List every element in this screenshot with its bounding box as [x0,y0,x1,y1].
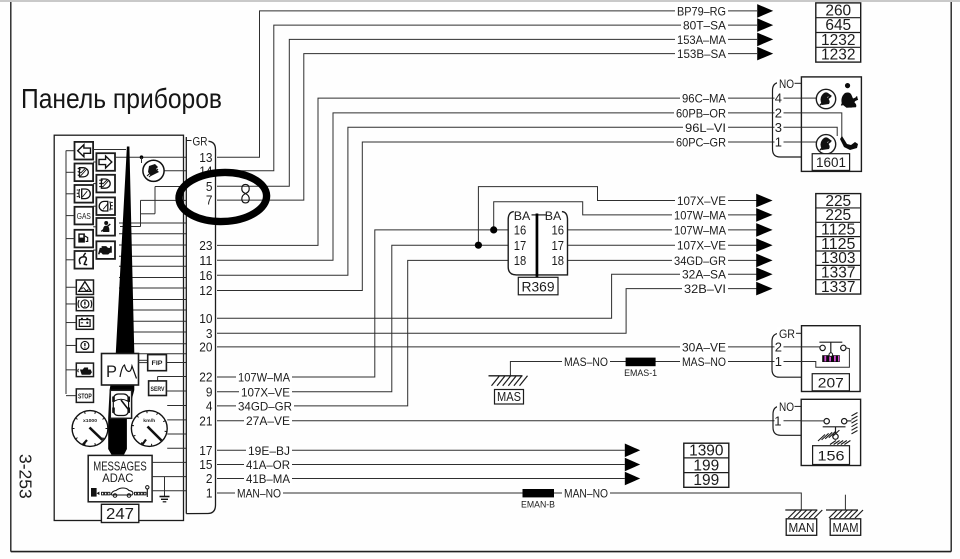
svg-text:NO: NO [779,79,794,91]
junction on R369 pin16 wire [490,226,497,233]
svg-text:4: 4 [206,399,213,414]
component R369 [508,209,567,295]
207 internal switch icon [802,342,850,367]
connector box 225/225/1125/1125/1303/1337/1337 [816,193,861,296]
tachometer gauge x1000 [72,411,108,447]
annotation ellipse (highlight around pins 5/7) [178,171,267,223]
156 reference label [813,446,850,465]
component 207 [802,326,861,392]
svg-text:MAS–NO: MAS–NO [682,355,726,369]
indicator STOP [66,389,94,403]
svg-text:30A–VE: 30A–VE [682,340,726,354]
pin 20 of connector GR [199,340,215,355]
svg-text:1: 1 [775,354,782,369]
svg-text:EMAS-1: EMAS-1 [624,368,657,379]
svg-text:MAN: MAN [789,520,815,535]
pin 21 of connector GR [199,413,215,428]
svg-text:18: 18 [552,254,565,268]
ground MAM [826,495,863,536]
svg-text:153A–MA: 153A–MA [677,33,726,47]
wire 30A-VE : pin20 to 207 pin2 [217,340,802,354]
svg-text:156: 156 [818,448,845,464]
indicator engine [93,241,115,259]
splice EMAN-B [521,489,555,511]
wire 60PB-OR : pin11 to 1601 pin2 [217,106,801,260]
speedometer needle (black pointer) [108,147,134,455]
svg-text:22: 22 [199,370,212,385]
pin 4 of connector GR [206,399,215,414]
svg-text:x1000: x1000 [83,418,97,424]
pin 1 of connector GR [206,486,215,501]
1601 pin 1 [775,135,784,150]
svg-text:41B–MA: 41B–MA [246,472,290,486]
svg-text:MAS: MAS [497,390,521,404]
svg-text:5: 5 [206,179,213,194]
svg-text:107X–VE: 107X–VE [677,194,726,208]
cluster internal wire bus (left ladder) [65,151,67,395]
speedometer gauge km/h [131,411,167,447]
svg-text:P: P [106,363,117,381]
svg-text:107W–MA: 107W–MA [238,371,290,385]
svg-text:32B–VI: 32B–VI [684,282,726,296]
svg-text:15: 15 [199,457,212,472]
svg-text:MAN–NO: MAN–NO [237,487,281,501]
connector box 260/645/1232/1232 [816,2,861,63]
svg-text:1: 1 [774,413,781,428]
wire 107X-VE : R369 pin17 branch to connector 225 [478,187,757,246]
wire 41A-OR : pin15 to connector 199 [217,458,625,472]
wire 19E-BJ : pin17 to connector 1390 [217,444,625,458]
svg-text:1337: 1337 [821,279,855,296]
svg-text:Панель приборов: Панель приборов [21,83,222,114]
svg-text:4: 4 [775,91,782,106]
svg-text:R369: R369 [522,279,555,294]
wire MAN-NO : pin1 to ground MAN [217,487,801,511]
svg-text:10: 10 [199,311,212,326]
indicator brake [66,297,94,311]
svg-text:km/h: km/h [143,418,155,424]
svg-text:1: 1 [206,486,213,501]
svg-text:60PC–GR: 60PC–GR [676,136,726,150]
door-ajar car (top view) box [110,390,131,418]
svg-text:12: 12 [199,283,212,298]
wire 153A-MA : pin5 to connector 1232 [217,33,757,186]
wire 107X-VE : pin9 to R369 pin17 (left) [217,245,508,399]
indicator oil [66,363,94,377]
wire BP79-RG : pin13 to connector 260 [217,4,757,157]
wire 32B-VI : pin3 to connector 1337 [217,282,757,333]
svg-text:107X–VE: 107X–VE [677,239,726,253]
svg-text:FIP: FIP [152,360,164,367]
MESSAGES ADAC display box [88,455,152,501]
207 pin 1 [775,354,784,369]
pin 3 of connector GR [206,326,215,341]
indicator left turn [66,142,93,160]
svg-text:18: 18 [514,254,527,268]
cluster reference label 247 [101,504,138,523]
svg-text:SERV: SERV [151,386,166,393]
svg-text:96C–MA: 96C–MA [682,92,726,106]
cluster wiring to connector (lower rows) [152,363,186,491]
R369 reference label [518,277,558,295]
title: Панель приборов [21,83,222,114]
cluster internal ground [160,477,170,502]
1601 seat belt indicator icon (bottom) [816,135,835,154]
svg-text:2: 2 [775,105,782,120]
svg-text:16: 16 [199,268,212,283]
indicator front fog [66,185,93,203]
pin 17 of connector GR [199,443,215,458]
pin 13 of connector GR [199,150,215,165]
wire 32A-SA : pin10 to connector 1337 [217,268,757,319]
arrows to 1390/199/199 [625,444,640,486]
svg-text:GR: GR [193,135,208,149]
ground MAN [785,510,822,535]
wire 107W-MA : R369 pin16 branch to connector 225 [494,202,757,230]
indicator high beam [93,175,115,193]
wire 27A-VE : pin21 to 156 pin1 [217,414,801,428]
svg-text:34GD–GR: 34GD–GR [674,254,726,268]
svg-text:20: 20 [199,340,212,355]
svg-text:32A–SA: 32A–SA [682,268,726,282]
wire MAS-NO : ground MAS to 207 pin1 [510,355,801,376]
wire 34GD-GR : pin4 to R369 pin18 (left) [217,260,508,413]
1601 internal wiring [801,98,841,142]
wire 80T-SA : pin14 to connector 645 [217,19,757,171]
indicator fuel [66,230,93,248]
sheet number 3-253 [16,454,36,499]
svg-text:BA: BA [545,209,562,223]
connector box 1390/199/199 [684,443,729,489]
pin 5 of connector GR [206,179,215,194]
junction on R369 pin17 wire [475,242,482,249]
1601 child seat pictogram [841,83,858,108]
arrows to 225/225/1125/1125/1303/1337/1337 [756,194,772,296]
wire 60PC-GR : pin12 to 1601 pin1 [217,136,801,291]
indicator battery [66,316,94,330]
indicator rear fog [93,197,115,215]
svg-text:MAM: MAM [833,520,859,535]
component 156 [801,399,860,465]
FIP box [139,355,167,371]
ground MAS [489,376,528,404]
svg-text:BP79–RG: BP79–RG [677,4,726,18]
1601 pin 3 [775,120,784,135]
pin 2 of connector GR [206,471,215,486]
svg-text:21: 21 [199,413,212,428]
svg-text:96L–VI: 96L–VI [685,121,726,135]
svg-text:17: 17 [514,239,527,253]
svg-text:17: 17 [199,443,212,458]
pin 11 of connector GR [199,253,215,268]
svg-text:3-253: 3-253 [16,454,36,499]
svg-text:BA: BA [514,209,531,223]
indicator seatbelt [93,218,115,236]
svg-text:107W–MA: 107W–MA [674,223,726,237]
svg-text:41A–OR: 41A–OR [246,458,290,472]
wire 153B-SA : pin7 to connector 1232 [217,47,757,200]
splice EMAS-1 [624,358,657,379]
svg-text:EMAN-B: EMAN-B [521,500,555,511]
pin 22 of connector GR [199,370,215,385]
207 pin 2 [775,339,784,354]
svg-text:247: 247 [106,506,134,523]
arrows to 260/645/1232/1232 [757,4,773,60]
svg-text:STOP: STOP [78,393,92,400]
1601 buckle pictogram [840,136,858,150]
wire 107W-MA : pin22 to R369 pin16 (left) [217,230,508,385]
1601 seat belt indicator icon (top) [816,89,835,108]
1601 bracket and label NO [773,77,802,157]
connector GR of cluster 247 [186,135,215,514]
svg-text:MAN–NO: MAN–NO [564,487,608,501]
cluster wiring to connector (middle rows) [119,223,186,354]
207 bracket and label GR [772,327,802,378]
svg-text:1601: 1601 [816,155,846,170]
svg-text:17: 17 [552,239,565,253]
svg-text:2: 2 [206,471,213,486]
indicator low beam [66,164,93,182]
SERV box [149,377,167,396]
svg-text:199: 199 [693,472,719,489]
svg-text:1232: 1232 [821,47,855,64]
svg-text:3: 3 [775,120,782,135]
wire 96L-VI : pin16 to 1601 pin3 [217,121,801,275]
pin 12 of connector GR [199,283,215,298]
svg-text:2: 2 [775,339,782,354]
indicator esp triangle [66,280,94,295]
twisted-pair symbol on pins 5/7 wires [242,184,249,203]
svg-text:MAS–NO: MAS–NO [564,355,608,369]
svg-text:27A–VE: 27A–VE [246,414,290,428]
pin 10 of connector GR [199,311,215,326]
svg-text:1: 1 [775,135,782,150]
svg-text:ADAC: ADAC [102,471,133,485]
wire 41B-MA : pin2 to connector 199 [217,472,625,486]
pin 14 of connector GR [199,163,215,178]
svg-text:34GD–GR: 34GD–GR [238,399,292,413]
svg-text:80T–SA: 80T–SA [683,19,726,33]
svg-text:11: 11 [199,253,212,268]
pin 9 of connector GR [206,384,215,399]
svg-text:107X–VE: 107X–VE [241,385,290,399]
wire 96C-MA : pin23 to 1601 pin4 [217,92,801,246]
indicator right turn [93,153,115,171]
156 pin 1 [774,413,783,428]
indicator handbrake [66,339,94,353]
pin 23 of connector GR [199,238,215,253]
svg-text:60PB–OR: 60PB–OR [676,106,726,120]
207 illumination element (magenta) [822,355,840,362]
156 bracket and label NO [773,400,801,436]
svg-text:107W–MA: 107W–MA [674,208,726,222]
component 1601 [801,77,861,171]
svg-text:GAS: GAS [77,211,91,221]
pin 16 of connector GR [199,268,215,283]
indicator immobilizer [66,251,93,269]
207 reference label [812,374,849,391]
156 internal switch icon [801,413,857,445]
1601 reference label [812,154,849,171]
svg-text:16: 16 [552,224,565,238]
instrument cluster 247 : outline [54,135,183,520]
svg-text:207: 207 [818,376,844,391]
indicator GAS [66,207,93,225]
wire 107W-MA : R369 pin16 right to connector 1125 [568,223,758,237]
svg-text:7: 7 [206,193,213,208]
wire 107X-VE : R369 pin17 right to connector 1125 [568,239,758,253]
pin 15 of connector GR [199,457,215,472]
indicator lamp (circled) [143,160,164,181]
trailer / park display box P [102,354,139,386]
svg-text:19E–BJ: 19E–BJ [248,444,290,458]
wire 34GD-GR : R369 pin18 right to connector 1303 [568,254,758,268]
1601 pin 2 [775,105,784,120]
svg-text:NO: NO [779,402,794,414]
svg-text:9: 9 [206,384,213,399]
cluster wiring to connector (upper rows) [93,150,186,227]
svg-text:153B–SA: 153B–SA [677,47,726,61]
svg-text:23: 23 [199,238,212,253]
svg-text:16: 16 [514,224,527,238]
pin 7 of connector GR [206,193,215,208]
1601 pin 4 [775,91,784,106]
